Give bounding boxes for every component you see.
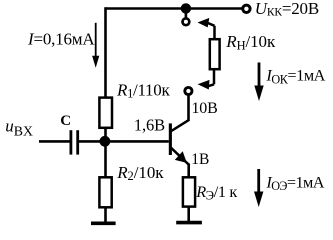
wire base node down to R2 <box>104 141 107 178</box>
transistor VT base bar <box>169 123 172 155</box>
current arrow Iok <box>258 63 261 89</box>
wire RE bottom to ground <box>187 206 190 222</box>
wire stub from top junction to plug terminal <box>185 9 188 18</box>
wire RN bottom lead with plug arrow <box>207 69 214 87</box>
svg-text:RЭ/1 к: RЭ/1 к <box>195 182 237 203</box>
wire emitter lead down to RE <box>187 164 190 179</box>
wire R2 bottom to ground <box>104 207 107 223</box>
wire RN top lead with plug arrow <box>207 23 215 40</box>
wire input to capacitor <box>39 140 70 143</box>
resistor R1 <box>99 98 112 128</box>
svg-text:R2/10к: R2/10к <box>116 163 164 183</box>
wire collector vertical <box>187 95 190 121</box>
svg-text:1В: 1В <box>191 151 209 168</box>
wire capacitor to transistor base <box>79 140 169 143</box>
current arrow Ioe <box>257 169 260 194</box>
transistor emitter diagonal <box>171 147 190 165</box>
svg-text:I=0,16мА: I=0,16мА <box>27 30 95 49</box>
svg-text:UКК=20В: UКК=20В <box>255 0 319 19</box>
wire R1 bottom to base node <box>104 128 107 144</box>
node base junction dot <box>100 136 111 147</box>
terminal circle of Ukk <box>243 5 250 12</box>
resistor R2 <box>99 177 111 207</box>
capacitor C plates <box>70 130 73 154</box>
terminal circle below junction <box>183 18 190 25</box>
wire left vertical from rail to R1 <box>104 7 107 98</box>
svg-text:1,6В: 1,6В <box>134 115 165 134</box>
terminal circle collector 10V <box>185 87 192 94</box>
wire top supply rail <box>106 7 243 10</box>
node junction at top rail <box>181 3 191 13</box>
ground under R2 <box>91 222 116 226</box>
current arrow I (left) <box>95 23 97 58</box>
svg-text:10В: 10В <box>192 100 218 117</box>
transistor emitter arrowhead <box>175 151 187 163</box>
svg-text:C: C <box>60 113 71 129</box>
svg-text:RН/10к: RН/10к <box>225 32 276 53</box>
ground under RE <box>176 221 202 225</box>
svg-text:R1/110к: R1/110к <box>116 80 170 100</box>
resistor RN <box>210 39 220 69</box>
resistor RE <box>183 177 195 206</box>
transistor collector diagonal <box>171 120 190 132</box>
